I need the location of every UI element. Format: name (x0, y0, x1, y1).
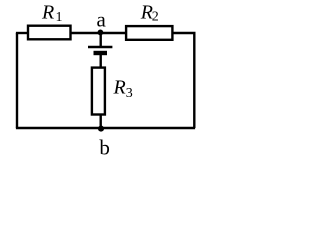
wire: R2 to top-right corner (172, 32, 196, 34)
wire: battery to R3 (99, 55, 101, 68)
svg-text:a: a (97, 7, 107, 31)
svg-text:1: 1 (56, 10, 63, 25)
svg-text:b: b (99, 135, 110, 159)
svg-text:R: R (113, 76, 126, 98)
resistor R1 (28, 26, 71, 40)
wire: R1 to node a (70, 32, 100, 34)
battery positive plate (long) (88, 46, 112, 48)
resistor R3 (92, 68, 105, 115)
wire: right side (193, 33, 195, 128)
resistor R2 (126, 26, 172, 40)
node a (98, 30, 104, 36)
svg-text:2: 2 (152, 10, 159, 25)
wire: bottom rail (16, 127, 195, 129)
node b (98, 126, 104, 132)
wire: node a to R2 (100, 32, 127, 34)
wire: top-left corner to R1 (16, 32, 29, 34)
svg-text:R: R (41, 1, 54, 23)
wire: left side (top-left corner down to bottom-left corner) (16, 33, 18, 128)
svg-text:3: 3 (126, 86, 133, 101)
wire: node a down to battery (99, 33, 101, 47)
battery negative plate (short thick) (94, 51, 108, 55)
wire: R3 to node b (99, 114, 101, 128)
